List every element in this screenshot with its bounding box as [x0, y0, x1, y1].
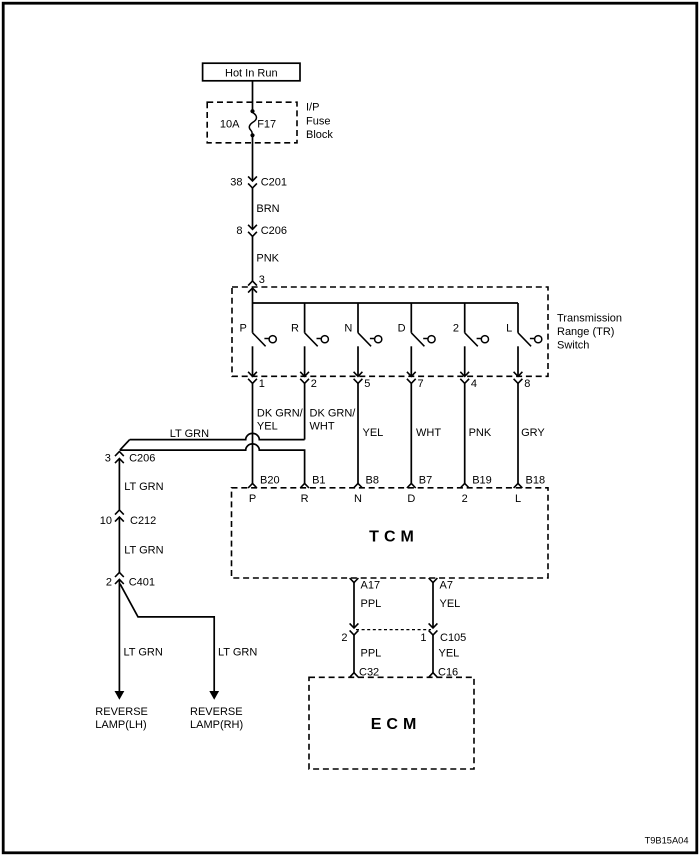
- switch L of TR switch: [506, 303, 542, 346]
- connector C401 pin 2: [115, 572, 124, 577]
- transmission range switch dashed box: [232, 287, 548, 376]
- svg-text:2: 2: [311, 378, 317, 390]
- svg-text:B20: B20: [260, 474, 280, 486]
- TR switch pin 7 connector: [407, 346, 424, 390]
- svg-text:YEL: YEL: [440, 598, 461, 610]
- svg-text:Range (TR): Range (TR): [557, 326, 614, 338]
- svg-text:PPL: PPL: [361, 648, 382, 660]
- svg-text:N: N: [344, 323, 352, 335]
- label DK GRN/YEL: [257, 407, 304, 432]
- svg-text:B1: B1: [312, 474, 325, 486]
- svg-text:2: 2: [106, 576, 112, 588]
- svg-text:R: R: [291, 323, 299, 335]
- switch P of TR switch: [239, 323, 276, 347]
- svg-text:D: D: [398, 323, 406, 335]
- svg-text:C212: C212: [130, 515, 156, 527]
- load label REVERSE LAMP(LH): [95, 706, 148, 731]
- svg-text:YEL: YEL: [257, 421, 278, 433]
- wire LT GRN lower with hop to TCM B1: [120, 444, 305, 483]
- TR switch pin 8 connector: [514, 346, 531, 390]
- svg-text:I/P: I/P: [306, 102, 319, 114]
- svg-text:LT GRN: LT GRN: [124, 647, 163, 659]
- switch N of TR switch: [344, 303, 381, 346]
- svg-text:YEL: YEL: [363, 427, 384, 439]
- svg-text:A17: A17: [361, 580, 381, 592]
- svg-text:WHT: WHT: [416, 427, 441, 439]
- connector C105 pin 2: [350, 623, 359, 628]
- wire PPL to ECM C32: [353, 635, 355, 673]
- svg-text:38: 38: [230, 177, 242, 189]
- svg-text:B18: B18: [526, 474, 546, 486]
- svg-text:PPL: PPL: [361, 598, 382, 610]
- svg-text:B7: B7: [419, 474, 432, 486]
- wire LT GRN to C212: [118, 459, 120, 511]
- connector C206 pin 3 left: [115, 452, 124, 457]
- wire from Hot In Run to fuse: [252, 81, 254, 111]
- wire PNK: [252, 236, 254, 281]
- TCM pin B19: [460, 474, 491, 505]
- connector C105 pin 1: [429, 623, 438, 628]
- svg-text:5: 5: [364, 378, 370, 390]
- svg-text:YEL: YEL: [439, 648, 460, 660]
- svg-text:10A: 10A: [220, 118, 240, 130]
- fuse F17: [249, 109, 256, 137]
- svg-text:2: 2: [453, 323, 459, 335]
- TCM dashed box: [232, 488, 549, 578]
- TR switch pin 4 connector: [460, 346, 477, 390]
- svg-text:7: 7: [418, 378, 424, 390]
- C105 dashed link: [356, 629, 431, 631]
- switch 2 of TR switch: [453, 303, 489, 346]
- wire fuse to C201: [252, 135, 254, 181]
- connector pin 3 into TR switch: [248, 281, 257, 286]
- svg-text:WHT: WHT: [310, 421, 335, 433]
- svg-text:1: 1: [420, 632, 426, 644]
- svg-text:PNK: PNK: [469, 427, 492, 439]
- svg-text:GRY: GRY: [521, 427, 545, 439]
- svg-text:REVERSE: REVERSE: [95, 706, 148, 718]
- TCM pin B1: [300, 474, 325, 505]
- svg-text:3: 3: [105, 453, 111, 465]
- TR switch pin 1 connector: [248, 346, 265, 390]
- wire into bus: [252, 288, 254, 333]
- TCM pin B18: [514, 474, 545, 505]
- svg-text:L: L: [506, 323, 512, 335]
- svg-text:DK GRN/: DK GRN/: [257, 407, 304, 419]
- svg-text:PNK: PNK: [256, 252, 279, 264]
- TCM pin B8: [354, 474, 379, 505]
- svg-text:LT GRN: LT GRN: [218, 647, 257, 659]
- TR switch label: [557, 312, 622, 351]
- svg-text:4: 4: [471, 378, 477, 390]
- TCM pin B20: [248, 474, 279, 505]
- svg-text:C105: C105: [440, 632, 466, 644]
- wire DK GRN/YEL from pin 1 to TCM B20: [252, 383, 254, 483]
- svg-text:8: 8: [524, 378, 530, 390]
- svg-text:R: R: [301, 493, 309, 505]
- svg-text:Hot In Run: Hot In Run: [225, 68, 278, 80]
- svg-text:DK GRN/: DK GRN/: [310, 407, 357, 419]
- wire YEL from pin 5 to TCM B8: [357, 383, 359, 483]
- TCM pin B7: [407, 474, 432, 505]
- svg-text:L: L: [515, 493, 521, 505]
- switch R of TR switch: [291, 303, 328, 346]
- wire PPL from A17: [353, 583, 355, 628]
- wire LT GRN to C401: [118, 517, 120, 572]
- svg-text:T9B15A04: T9B15A04: [645, 836, 689, 846]
- bus wire: [253, 302, 519, 304]
- svg-text:LAMP(LH): LAMP(LH): [95, 719, 146, 731]
- wire PNK from pin 4 to TCM B19: [464, 383, 466, 483]
- label DK GRN/WHT: [310, 407, 357, 432]
- TR switch pin 5 connector: [354, 346, 371, 390]
- svg-text:D: D: [407, 493, 415, 505]
- TR switch pin 2 connector: [300, 346, 317, 390]
- svg-text:TCM: TCM: [369, 529, 419, 546]
- svg-text:ECM: ECM: [371, 716, 422, 733]
- power source box Hot In Run: [203, 63, 300, 81]
- svg-text:2: 2: [462, 493, 468, 505]
- svg-text:F17: F17: [257, 118, 276, 130]
- switch D of TR switch: [398, 303, 435, 346]
- wire YEL to ECM C16: [432, 635, 434, 673]
- svg-text:Switch: Switch: [557, 339, 589, 351]
- svg-text:BRN: BRN: [256, 203, 279, 215]
- wire LT GRN upper with hop over DK GRN/YEL: [120, 433, 305, 450]
- wire BRN: [252, 188, 254, 229]
- svg-text:C201: C201: [261, 177, 287, 189]
- wire LT GRN branch to RH reverse lamp: [120, 584, 219, 700]
- svg-text:LT GRN: LT GRN: [124, 544, 163, 556]
- fuse block label I/P Fuse Block: [306, 102, 333, 141]
- wire GRY from pin 8 to TCM B18: [517, 383, 519, 483]
- wire DK GRN/WHT from pin 2: [304, 383, 306, 439]
- svg-text:C206: C206: [261, 225, 287, 237]
- ECM pin C16 chevron: [429, 673, 438, 678]
- connector C201 pin 38: [248, 176, 257, 181]
- svg-text:LT GRN: LT GRN: [124, 481, 163, 493]
- connector C212 pin 10: [115, 510, 124, 515]
- I/P fuse block dashed box: [207, 102, 297, 143]
- svg-text:1: 1: [259, 378, 265, 390]
- svg-text:3: 3: [259, 274, 265, 286]
- svg-text:B19: B19: [472, 474, 492, 486]
- svg-text:Block: Block: [306, 129, 333, 141]
- svg-text:2: 2: [341, 632, 347, 644]
- load label REVERSE LAMP(RH): [190, 706, 243, 731]
- wire YEL from A7: [432, 583, 434, 628]
- svg-text:N: N: [354, 493, 362, 505]
- svg-text:B8: B8: [366, 474, 379, 486]
- wire LT GRN to LH reverse lamp: [115, 579, 125, 699]
- svg-text:Transmission: Transmission: [557, 312, 622, 324]
- svg-text:Fuse: Fuse: [306, 115, 330, 127]
- svg-text:LAMP(RH): LAMP(RH): [190, 719, 243, 731]
- svg-text:REVERSE: REVERSE: [190, 706, 243, 718]
- ECM pin C32 chevron: [350, 673, 359, 678]
- svg-text:10: 10: [100, 515, 112, 527]
- svg-text:LT GRN: LT GRN: [170, 428, 209, 440]
- svg-text:A7: A7: [440, 580, 453, 592]
- svg-text:P: P: [239, 323, 246, 335]
- svg-text:C401: C401: [129, 576, 155, 588]
- svg-text:C206: C206: [129, 453, 155, 465]
- svg-text:P: P: [249, 493, 256, 505]
- TCM output pin A7: [429, 578, 453, 592]
- svg-text:8: 8: [236, 225, 242, 237]
- ECM dashed box: [309, 677, 474, 769]
- connector C206 pin 8: [248, 225, 257, 230]
- TCM output pin A17: [350, 578, 380, 592]
- wire WHT from pin 7 to TCM B7: [410, 383, 412, 483]
